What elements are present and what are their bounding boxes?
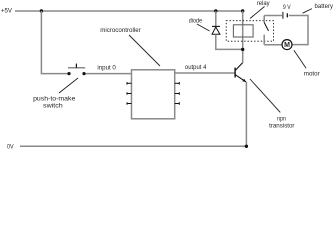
microcontroller U1 body [132, 70, 175, 119]
wire microcontroller output to transistor base [175, 72, 235, 74]
svg-text:M: M [284, 42, 290, 49]
push-to-make switch S1 [67, 64, 85, 76]
relay coil [233, 25, 253, 37]
wire collector up to junction [242, 49, 244, 63]
wire bottom 0V rail [20, 145, 246, 147]
svg-text:microcontroller: microcontroller [100, 27, 141, 34]
svg-text:switch: switch [43, 102, 63, 109]
pin left 3 [127, 102, 132, 105]
wire emitter down to 0V rail [245, 82, 247, 146]
relay contact bottom terminal [263, 35, 265, 45]
transistor Q1 npn [235, 63, 246, 82]
leader line to transistor [250, 79, 280, 112]
junction dot emitter / 0V rail [245, 145, 248, 148]
wire diode anode down and right to coil branch [216, 34, 243, 49]
junction dot at +5V rail / switch branch [40, 9, 43, 12]
wire contact to battery [264, 15, 282, 17]
svg-text:push-to-make: push-to-make [33, 95, 76, 102]
leader line to switch [59, 78, 78, 93]
pin left 2 [127, 92, 132, 95]
pin right 2 [175, 92, 180, 95]
wire from +5V rail down to switch [41, 11, 67, 74]
svg-text:motor: motor [304, 70, 320, 77]
relay RL1 dashed enclosure [226, 21, 273, 42]
leader line to microcontroller [129, 35, 160, 66]
svg-text:9 V: 9 V [283, 4, 291, 11]
relay contact arm [264, 23, 268, 31]
leader line to relay box [250, 7, 265, 19]
wire switch to microcontroller input [86, 73, 132, 75]
svg-text:+5V: +5V [1, 8, 13, 15]
motor M1 [282, 40, 292, 50]
battery B1 9V [283, 12, 287, 19]
wire top +5V rail [15, 10, 243, 12]
pin left 1 [127, 82, 132, 85]
svg-text:battery: battery [315, 3, 334, 10]
svg-text:0V: 0V [7, 144, 14, 151]
wire rail down to diode cathode [215, 11, 217, 26]
leader line to diode [197, 24, 210, 31]
svg-text:relay: relay [257, 0, 271, 7]
diode D1 [212, 26, 220, 34]
leader line to battery [303, 9, 312, 14]
wire rail down to relay coil [242, 11, 244, 49]
svg-text:output 4: output 4 [185, 64, 207, 71]
svg-text:diode: diode [189, 18, 203, 25]
pin right 3 [175, 102, 180, 105]
relay contact top terminal [263, 16, 265, 23]
svg-text:input 0: input 0 [97, 64, 116, 71]
pin right 1 [175, 82, 180, 85]
wire battery to right side down to motor [289, 16, 308, 45]
junction dot +5V rail / relay coil [241, 9, 244, 12]
junction dot coil / diode / collector [241, 48, 244, 51]
svg-text:transistor: transistor [269, 123, 294, 130]
wire contact to motor [264, 44, 282, 46]
leader line to motor [294, 50, 306, 68]
junction dot +5V rail / diode [214, 9, 217, 12]
